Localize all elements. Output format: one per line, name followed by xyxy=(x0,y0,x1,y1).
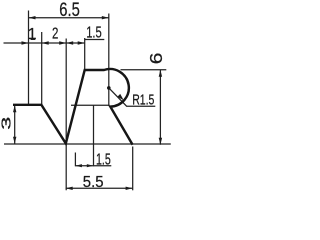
arrow 6.5 right (tip 108.8,17.7 pointing right) xyxy=(102,16,109,19)
arrow 6 bottom (pointing down) xyxy=(159,138,162,145)
extension line x=66.2 (V vertex, runs down to 5.5 dim) xyxy=(65,39,67,191)
arc center dot xyxy=(107,86,111,90)
arrow row2 at 41.7 (tip pointing left from right side) xyxy=(42,41,49,44)
arrow row2 outside-left (tip 28.5,43 pointing right) xyxy=(22,41,29,44)
dimension line row2 (1,2,1.5) with left tail xyxy=(4,42,85,44)
dimension line bottom 1.5 xyxy=(75,165,93,167)
shelf for top 1.5 text xyxy=(85,39,105,41)
construction line y=105.3 (groove root level) xyxy=(71,104,110,106)
top right extension line y=69.7 for dim 6 xyxy=(121,69,167,71)
extension line x=41.7 (slant start corner) xyxy=(41,32,43,105)
R1.5 leader line xyxy=(109,88,155,106)
arrow 6 top (pointing up) xyxy=(159,70,162,77)
arrow row2 at 66.2 pointing left xyxy=(66,41,73,44)
arrow 3 bottom (pointing down) xyxy=(13,137,16,144)
bottom extension line y=144 xyxy=(4,143,171,145)
dimension line 5.5 xyxy=(66,187,133,189)
svg-text:6: 6 xyxy=(147,53,166,65)
arrow bottom1.5 right (tip 93.3 pointing right) xyxy=(87,164,94,167)
serif bar under digit 1 xyxy=(31,38,36,40)
arrow 5.5 right xyxy=(126,187,133,190)
dimension line 3 (vertical) xyxy=(14,105,16,144)
arrow 5.5 left xyxy=(66,187,73,190)
svg-text:1: 1 xyxy=(28,26,37,43)
svg-text:1.5: 1.5 xyxy=(86,25,102,42)
extension line x=28.5 (left end of profile top edge) xyxy=(28,11,30,105)
extension line x=93.5 (bottom 1.5 right) xyxy=(93,106,95,167)
arrow R1.5 leader (on arc, pointing down-right) xyxy=(117,94,123,101)
arrow row2 at 84.7 pointing right xyxy=(78,41,85,44)
dimension line 6 (vertical) xyxy=(159,70,161,145)
svg-text:6.5: 6.5 xyxy=(59,0,80,21)
profile outline (thick) xyxy=(13,69,133,145)
arrow 3 top (pointing up) xyxy=(13,105,16,112)
svg-text:2: 2 xyxy=(52,26,58,43)
svg-text:5.5: 5.5 xyxy=(83,174,104,191)
arrow 6.5 left (tip 28.5,17.7 pointing left) xyxy=(29,16,36,19)
svg-text:1.5: 1.5 xyxy=(96,151,111,168)
extension line x=132.7 (bottom right vertex) xyxy=(132,147,134,191)
extension line x=75.4 (bottom 1.5 left) xyxy=(74,153,76,167)
extension line x=108.8 (6.5 right end / arc top) xyxy=(108,14,110,106)
dimension line 6.5 xyxy=(29,17,109,19)
shelf for bottom 1.5 text xyxy=(93,165,111,167)
arrow bottom1.5 left (tip 75.4 pointing left) xyxy=(75,164,82,167)
arrow row2 at 66.2 pointing right xyxy=(59,41,66,44)
svg-text:3: 3 xyxy=(0,117,14,130)
svg-text:R1.5: R1.5 xyxy=(132,93,154,109)
extension line x=84.7 (steep slant top corner) xyxy=(84,38,86,70)
